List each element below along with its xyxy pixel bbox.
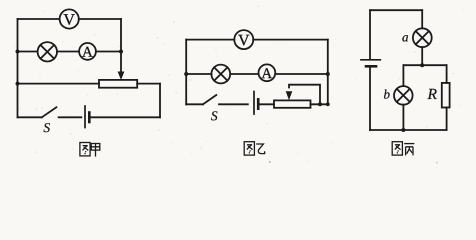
wire top right [79,18,121,20]
wire branch horizontal [404,64,447,66]
lamp b [394,86,413,105]
rheostat R1 body [99,80,137,88]
lamp L2 [211,65,230,84]
node junction bottom right corner [326,102,330,106]
svg-text:S: S [211,108,218,123]
paper noise [3,4,463,163]
svg-text:A: A [261,66,272,82]
wire battery to switch [59,116,82,118]
battery cell [254,92,258,115]
wire lamp-b top lead [402,65,404,86]
label figure-jia (Chinese: tu jia) [80,143,100,157]
rheostat slider arm [286,85,320,105]
wire top right [253,39,327,41]
node junction branch [420,63,424,67]
char jia [91,144,100,157]
node junction left rheostat row [16,82,20,86]
wire row2 c [96,51,121,53]
battery cell [361,60,380,67]
lamp a [413,28,432,47]
wire row2 a [18,51,38,53]
wire right vertical lower [159,84,161,118]
wire left vertical upper [369,10,371,59]
ammeter A [79,43,96,61]
svg-text:R: R [427,86,438,103]
battery cell [85,106,89,128]
svg-text:V: V [63,12,75,29]
char tu [244,142,254,155]
label figure-bing (Chinese: tu bing) [392,142,414,156]
wire switch to battery [219,103,248,105]
wire lamp-a bottom lead [421,47,423,65]
wire top left [18,18,60,20]
wire bottom right [89,116,160,118]
svg-text:A: A [82,45,93,61]
rheostat slider arrow [118,52,125,81]
wire row2 c [275,73,328,75]
wire rheostat left [18,83,100,85]
switch S2 [186,95,216,104]
wire row2 b [230,73,258,75]
voltmeter V [60,9,79,28]
svg-text:V: V [238,32,250,49]
char bing [404,144,414,156]
char yi [256,144,264,154]
wire right vertical upper [120,19,122,52]
rheostat R2 body [274,100,311,107]
char tu [392,142,402,155]
label figure-yi (Chinese: tu yi) [244,142,264,155]
wire top left [186,39,234,41]
svg-text:b: b [383,87,390,102]
svg-text:a: a [402,29,409,44]
wire bottom [370,129,447,131]
resistor R body [442,83,450,108]
node junction bottom [401,128,405,132]
char tu [80,143,90,156]
wire right vertical [327,40,329,105]
wire row2 a [186,73,211,75]
wire left vertical lower [369,66,371,130]
node junction right row2 [119,50,123,54]
wire resistor top lead [446,65,448,83]
wire rheostat right [137,83,160,85]
lamp L1 [38,42,57,61]
wire battery to rheostat [258,103,274,105]
wire left vertical [185,40,187,105]
wire left vertical [17,19,19,117]
wire lamp-a top lead [421,10,423,28]
node junction left row2 [16,50,20,54]
wire resistor bottom lead [446,108,448,131]
voltmeter V [234,30,253,49]
node junction slider bottom [318,102,322,106]
wire lamp-b bottom lead [402,105,404,130]
wire rheostat right [311,103,328,105]
ammeter A [259,64,276,82]
wire top [370,9,422,11]
node junction right row2 [326,72,330,76]
switch S1 [18,107,57,117]
wire row2 b [57,51,79,53]
svg-text:S: S [43,120,50,135]
node junction left row2 [184,72,188,76]
